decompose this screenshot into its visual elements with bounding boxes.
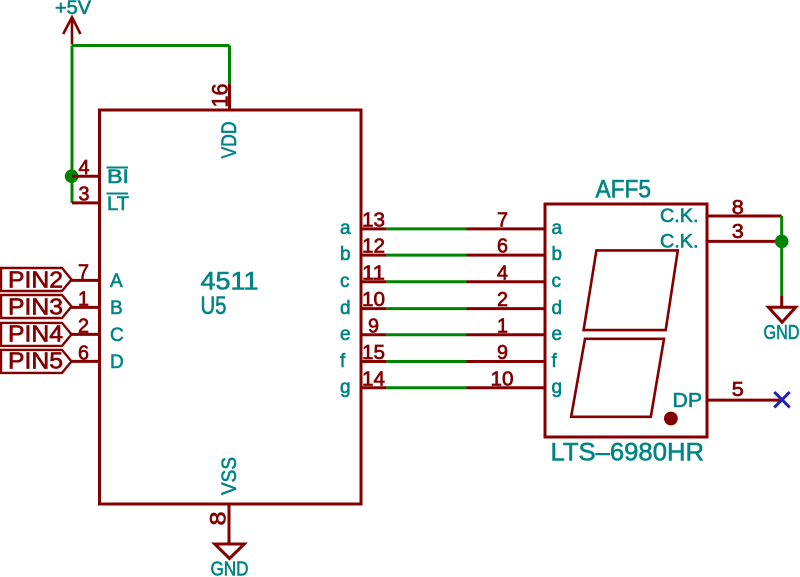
svg-text:10: 10: [491, 368, 514, 390]
svg-text:C: C: [110, 325, 124, 346]
svg-text:3: 3: [732, 221, 744, 243]
pin 7 A: [71, 279, 100, 282]
svg-text:C.K.: C.K.: [660, 232, 699, 253]
svg-text:4: 4: [497, 262, 508, 284]
svg-text:14: 14: [362, 368, 385, 390]
svg-text:6: 6: [497, 236, 508, 258]
wire d: [386, 307, 466, 310]
svg-text:a: a: [340, 218, 351, 239]
display pin 10 g: [467, 386, 546, 389]
wire c: [386, 280, 466, 283]
wire a: [386, 227, 466, 230]
display pin 3 C.K.: [707, 240, 782, 243]
svg-text:GND: GND: [764, 322, 800, 344]
svg-text:U5: U5: [201, 292, 227, 320]
pin 6 D: [71, 360, 100, 363]
svg-text:e: e: [340, 324, 351, 345]
display pin 1 e: [467, 333, 546, 336]
pin 11 c right: [361, 280, 386, 283]
svg-text:c: c: [340, 271, 350, 292]
svg-text:BI: BI: [107, 167, 129, 188]
pin 15 f right: [361, 360, 386, 363]
svg-text:2: 2: [78, 316, 89, 338]
svg-text:B: B: [110, 298, 123, 319]
svg-text:f: f: [340, 351, 346, 372]
svg-text:3: 3: [79, 184, 90, 206]
hierarchical label PIN2: [1, 268, 72, 291]
svg-text:PIN2: PIN2: [8, 267, 63, 293]
svg-text:8: 8: [732, 197, 744, 219]
svg-text:10: 10: [362, 289, 385, 311]
svg-text:C.K.: C.K.: [660, 206, 699, 227]
svg-text:d: d: [552, 298, 563, 319]
svg-text:8: 8: [206, 512, 231, 526]
pin 14 g right: [361, 386, 386, 389]
pin 1 B: [71, 306, 100, 309]
svg-text:DP: DP: [673, 390, 703, 412]
svg-text:9: 9: [497, 342, 508, 364]
power +5V symbol: [63, 17, 80, 44]
svg-text:f: f: [552, 351, 558, 372]
svg-text:AFF5: AFF5: [596, 176, 652, 204]
svg-text:LTS–6980HR: LTS–6980HR: [551, 439, 705, 467]
segment glyph bottom: [571, 339, 664, 417]
svg-text:7: 7: [78, 262, 89, 284]
display AFF5 body (LTS-6980HR): [545, 204, 707, 437]
pin 8 VSS bottom: [228, 504, 231, 544]
svg-text:+5V: +5V: [55, 0, 91, 19]
svg-text:b: b: [552, 244, 563, 265]
svg-text:16: 16: [208, 84, 233, 108]
display pin 8 C.K.: [707, 215, 782, 218]
svg-text:e: e: [552, 324, 563, 345]
svg-text:PIN3: PIN3: [8, 294, 63, 320]
pin 3 LT: [72, 201, 100, 204]
wire f: [386, 360, 466, 363]
wire b: [386, 254, 466, 257]
svg-text:d: d: [340, 298, 351, 319]
svg-text:9: 9: [368, 315, 379, 337]
op-amp U5 body (4511 IC): [100, 110, 362, 504]
svg-text:GND: GND: [211, 559, 249, 577]
segment glyph top: [584, 250, 678, 330]
wire g: [386, 386, 466, 389]
svg-text:c: c: [552, 271, 562, 292]
svg-text:4: 4: [79, 157, 90, 179]
pin 9 e right: [361, 333, 386, 336]
display pin 9 f: [467, 360, 546, 363]
svg-text:2: 2: [497, 289, 508, 311]
wire right vertical: [780, 216, 783, 296]
svg-text:PIN4: PIN4: [8, 321, 63, 347]
svg-text:6: 6: [78, 343, 89, 365]
hierarchical label PIN5: [1, 350, 72, 373]
svg-text:11: 11: [362, 262, 385, 284]
svg-text:5: 5: [732, 379, 744, 401]
pin 10 d right: [361, 307, 386, 310]
no-connect X pin5: [774, 392, 789, 407]
display pin 4 c: [467, 280, 546, 283]
svg-text:A: A: [110, 271, 123, 292]
svg-text:b: b: [340, 244, 351, 265]
svg-text:PIN5: PIN5: [8, 348, 63, 374]
display pin 5: [707, 399, 780, 402]
hierarchical label PIN3: [1, 295, 72, 318]
svg-text:7: 7: [497, 210, 508, 232]
wire +5V vertical left: [71, 46, 74, 203]
pin 4 BI: [72, 175, 100, 178]
svg-text:VDD: VDD: [218, 122, 241, 159]
display pin 2 d: [467, 307, 546, 310]
ground symbol right: [769, 296, 796, 323]
hierarchical label PIN4: [1, 323, 72, 346]
junction right: [775, 235, 789, 249]
svg-text:12: 12: [362, 236, 385, 258]
svg-text:1: 1: [497, 315, 508, 337]
wire down to pin16: [228, 46, 231, 85]
ground symbol bottom: [215, 544, 245, 559]
svg-text:1: 1: [78, 289, 89, 311]
svg-text:LT: LT: [107, 194, 129, 215]
svg-text:D: D: [110, 352, 124, 373]
wire e: [386, 333, 466, 336]
pin 13 a right: [361, 227, 386, 230]
svg-text:13: 13: [362, 210, 385, 232]
junction left: [65, 169, 79, 183]
pin 12 b right: [361, 254, 386, 257]
pin 16 VDD top: [228, 84, 231, 110]
svg-text:15: 15: [362, 342, 385, 364]
display pin 7 a: [467, 227, 546, 230]
wire +5V horizontal top: [72, 44, 230, 47]
pin 2 C: [71, 333, 100, 336]
svg-text:g: g: [552, 377, 563, 398]
display pin 6 b: [467, 254, 546, 257]
svg-text:VSS: VSS: [218, 457, 241, 495]
svg-text:a: a: [552, 218, 563, 239]
DP dot: [664, 412, 678, 426]
svg-text:g: g: [340, 377, 351, 398]
